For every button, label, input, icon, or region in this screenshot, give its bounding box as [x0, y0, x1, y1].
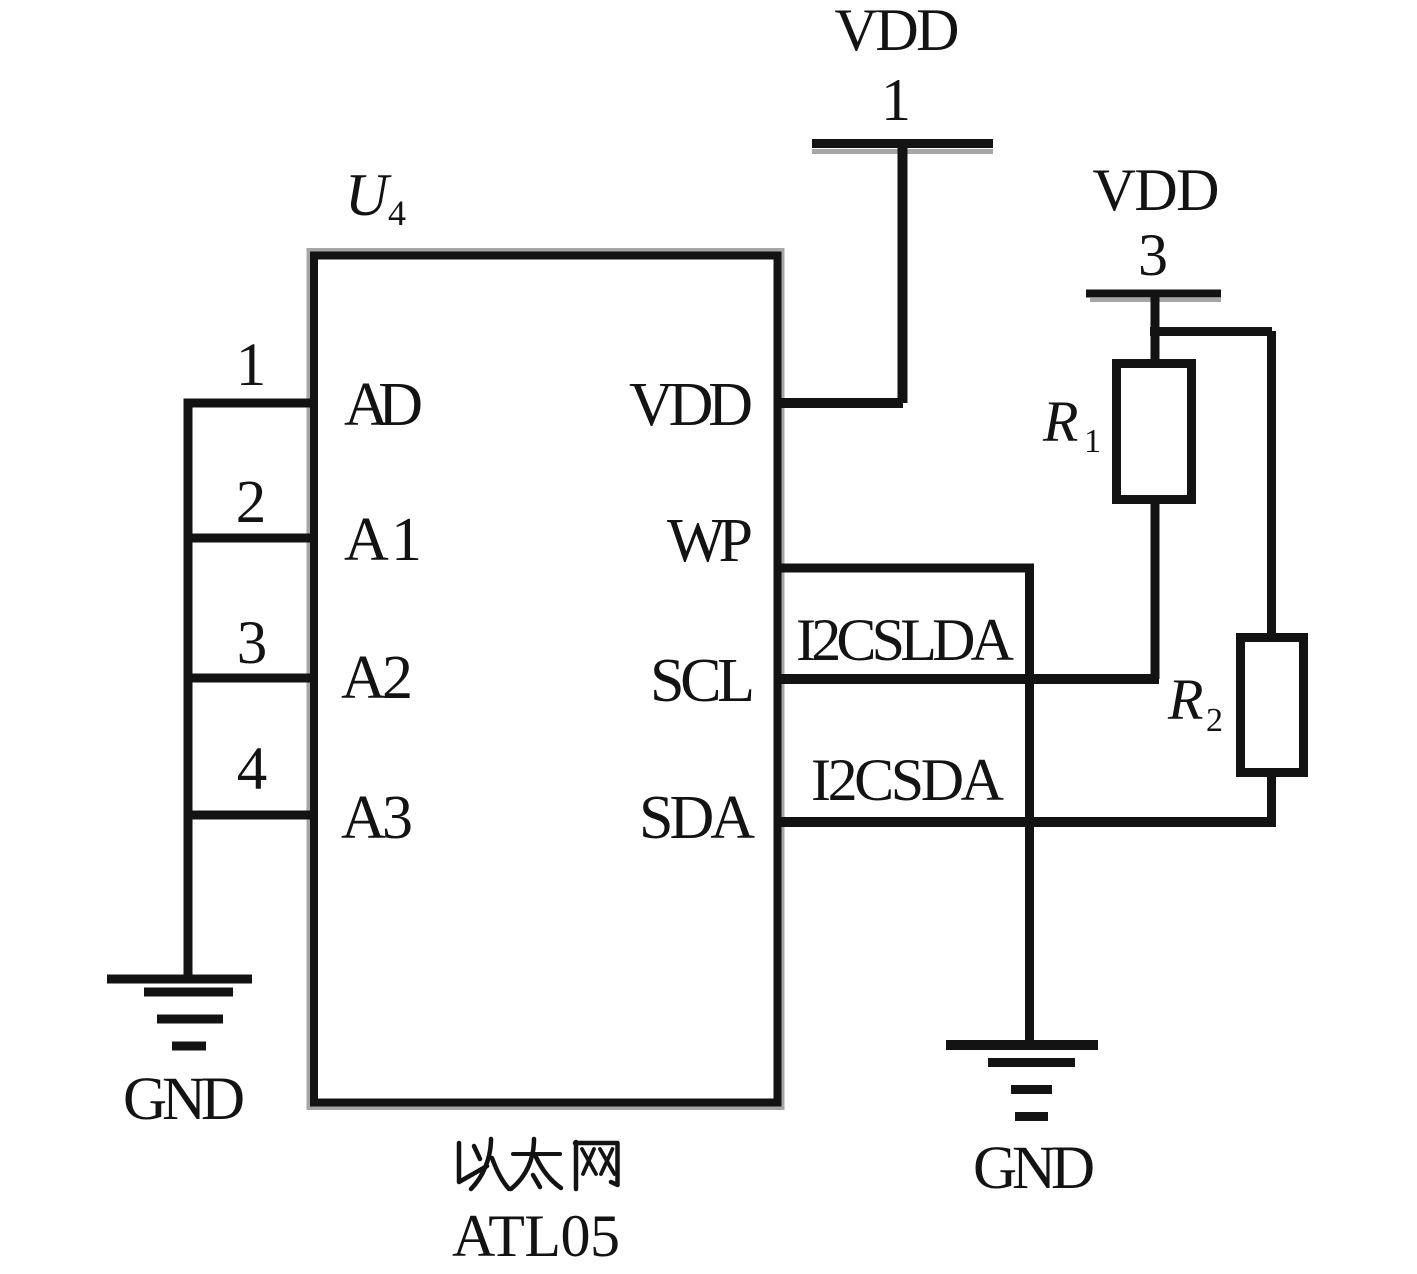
- svg-text:VDD: VDD: [1093, 157, 1220, 223]
- svg-text:AD: AD: [344, 371, 423, 439]
- svg-text:2: 2: [236, 469, 267, 536]
- svg-text:4: 4: [237, 736, 268, 803]
- svg-text:I2CSDA: I2CSDA: [811, 747, 1004, 813]
- svg-text:GND: GND: [973, 1135, 1095, 1202]
- svg-text:GND: GND: [123, 1066, 245, 1133]
- svg-text:I2CSLDA: I2CSLDA: [796, 607, 1014, 673]
- svg-text:U: U: [345, 162, 392, 228]
- svg-text:SDA: SDA: [639, 784, 755, 852]
- svg-text:R: R: [1042, 389, 1078, 454]
- svg-text:R: R: [1167, 667, 1203, 732]
- svg-text:3: 3: [1138, 222, 1168, 288]
- svg-text:2: 2: [1206, 702, 1223, 739]
- svg-text:SCL: SCL: [650, 647, 755, 715]
- svg-text:4: 4: [388, 193, 406, 233]
- svg-text:WP: WP: [667, 507, 753, 575]
- svg-text:ATL05: ATL05: [452, 1203, 620, 1269]
- svg-text:1: 1: [236, 332, 267, 399]
- svg-text:VDD: VDD: [629, 371, 753, 439]
- svg-text:A2: A2: [341, 644, 413, 712]
- svg-text:3: 3: [237, 610, 268, 677]
- svg-text:1: 1: [881, 67, 911, 133]
- svg-text:VDD: VDD: [835, 0, 960, 63]
- svg-text:A3: A3: [341, 784, 413, 852]
- svg-text:1: 1: [1084, 423, 1101, 460]
- svg-text:A1: A1: [344, 506, 422, 574]
